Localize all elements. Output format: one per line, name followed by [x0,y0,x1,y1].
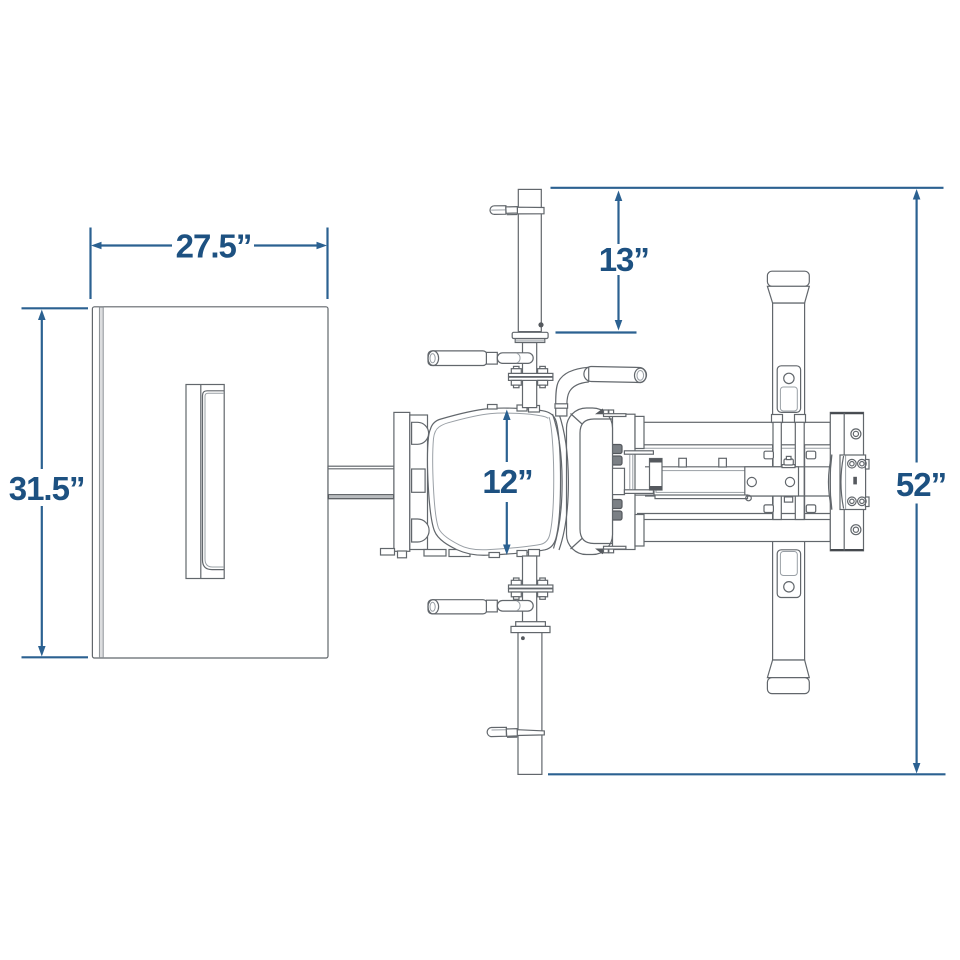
top beam [637,422,830,445]
bottom pole [518,633,542,775]
end plate [830,412,863,550]
pad bracket [613,414,636,549]
svg-text:12”: 12” [482,463,532,500]
seat seam [433,413,554,550]
seat top mounts [488,405,498,410]
right handle grip [584,366,647,382]
right handle tube [556,367,589,416]
mid arm block [745,467,799,496]
svg-text:31.5”: 31.5” [9,470,85,507]
left bracket plate A [394,412,410,551]
bottom clamp plates [514,578,520,581]
right handle tube collar [555,404,568,408]
seat [428,408,561,555]
cross bar [773,303,805,660]
cross bar top slot plate [777,366,800,413]
dim 52 bottom line [548,773,946,775]
rod to seat [523,343,537,408]
dim 27.5 ext right [326,228,328,300]
bracket feet [381,549,395,556]
plate bolts [848,459,857,468]
dim 52 line [915,198,917,463]
cross bar bottom slot plate [777,550,800,598]
dim 13 line [617,199,619,244]
cross bar top cap [767,271,809,286]
guide rail [620,491,654,495]
dim 12 line [506,418,508,462]
secondary plate [840,455,866,510]
mid arm rails [645,466,830,468]
bracket tab bottom [412,519,430,542]
top pole [518,189,541,331]
dim 31.5 tick top [22,307,89,309]
mid arm end cap [650,459,663,491]
svg-text:13”: 13” [599,241,649,278]
bottom collar [516,622,546,627]
bracket mid block [412,469,426,492]
top pin clamp [490,206,506,215]
top clamp plates [514,366,520,369]
top pole collar [512,332,548,338]
back pad bevel [580,419,612,544]
bracket tab top [412,422,429,444]
end plate crescent small [841,456,844,509]
foot plate [92,307,328,658]
seat crease [553,414,563,549]
dim 13 tick bottom [556,331,637,333]
bottom handlebar [428,600,487,614]
cross bar bottom cap [767,660,809,678]
bottom pin clamp [487,727,506,736]
top handlebar [428,351,487,366]
left bracket plate B [410,415,428,550]
end plate crescent big [828,455,831,510]
rod below seat [523,556,537,622]
back pad [567,408,613,555]
cross bar clamp strips [772,415,783,423]
arm center bolt [782,465,795,468]
seat bottom mounts [489,553,500,558]
bottom beam [637,513,830,515]
clamp nuts [764,451,773,459]
dim 27.5 line [99,244,172,246]
dim 27.5 ext left [89,228,91,300]
foot plate slot [186,385,224,579]
connecting arm [328,466,394,499]
dim 31.5 tick bottom [22,656,89,658]
dim 52 top line [551,187,944,189]
mid arm tabs [679,458,687,467]
dim 31.5 line [41,317,43,469]
svg-text:52”: 52” [896,466,946,503]
svg-text:27.5”: 27.5” [176,227,252,264]
